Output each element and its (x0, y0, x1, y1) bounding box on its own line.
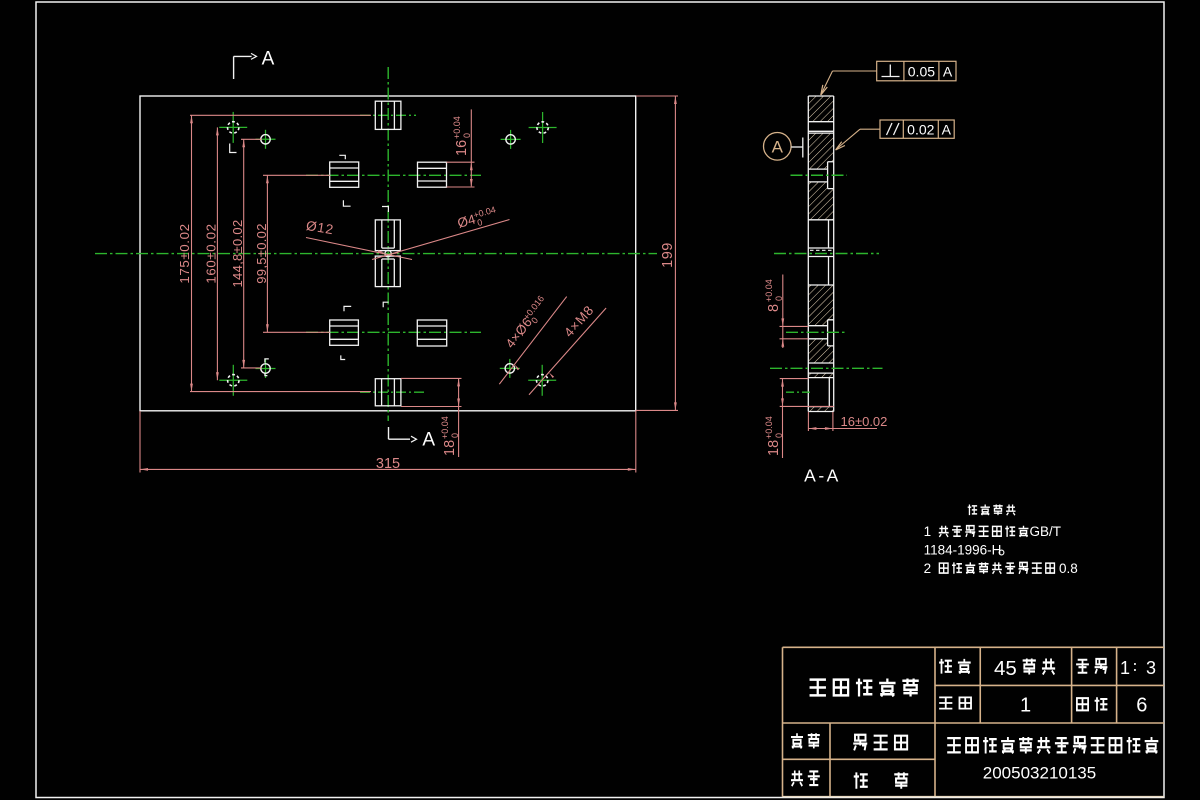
section cut mark A bottom (389, 427, 436, 451)
centerline horizontal main (95, 253, 657, 255)
svg-text:315: 315 (376, 456, 400, 472)
svg-text:1: 1 (1020, 695, 1031, 717)
hole phi6 top-left (256, 130, 276, 149)
feature control frame perpendicularity 0.05 A (821, 61, 956, 95)
dim 18+0.04 section (764, 379, 834, 458)
dim 16+0.04 slot width (447, 109, 475, 187)
cell 1:3 (1120, 658, 1156, 678)
hole M8 top-right (529, 112, 557, 143)
svg-text:175±0.02: 175±0.02 (177, 223, 192, 283)
svg-text:199: 199 (660, 242, 676, 268)
slot center lower (375, 256, 400, 287)
svg-text:0.02: 0.02 (907, 122, 934, 138)
pocket corner marks (230, 144, 389, 376)
svg-text:A: A (772, 138, 784, 157)
svg-text:+0.04: +0.04 (764, 279, 774, 302)
hole phi6 bottom-right (500, 359, 520, 378)
svg-text:45: 45 (994, 657, 1017, 680)
svg-text:0: 0 (476, 217, 484, 228)
school name (947, 737, 1158, 753)
leader phi12 (305, 218, 412, 260)
centerline vertical main (387, 67, 389, 421)
svg-text:0: 0 (774, 296, 784, 301)
svg-text:A: A (422, 430, 435, 451)
slot mid lower-left (330, 320, 359, 345)
cell 45号钢 (994, 657, 1055, 680)
dim 8+0.04 section (764, 275, 808, 349)
cell 材料 (939, 659, 971, 674)
centerline row2 (306, 331, 481, 333)
svg-text:+0.04: +0.04 (452, 116, 462, 139)
svg-text:GB/T: GB/T (1030, 524, 1062, 539)
section cut mark A top (234, 49, 275, 80)
qty value 1 (1020, 695, 1031, 717)
slot top (vertical) (375, 101, 401, 129)
dim 160±0.02 (204, 127, 219, 380)
svg-text:1: 1 (924, 524, 932, 539)
datum A circle (764, 133, 803, 161)
tech requirements text (924, 505, 1078, 576)
cell 制图 (791, 733, 820, 748)
name 罗惠镇 (853, 735, 907, 751)
svg-text:16±0.02: 16±0.02 (841, 414, 888, 429)
cell 比例 (1076, 659, 1107, 674)
svg-text:4×M8: 4×M8 (561, 302, 597, 340)
student id (983, 763, 1096, 782)
dim 18+0.04 bottom slot (401, 378, 462, 457)
svg-text:3: 3 (1146, 658, 1156, 678)
slot bottom (vertical) (375, 379, 401, 406)
centerline bottom slot (360, 391, 424, 393)
svg-text:160±0.02: 160±0.02 (204, 223, 219, 283)
svg-text:200503210135: 200503210135 (983, 763, 1096, 782)
cell 指导 (791, 770, 820, 786)
plate outline (315x199 top view) (140, 96, 636, 411)
title block grid (783, 647, 1165, 797)
svg-text:0: 0 (774, 433, 784, 438)
dim 16±0.02 section (808, 412, 887, 431)
hole M8 top-left (219, 112, 247, 143)
leader 4xM8 (529, 302, 606, 394)
slot mid lower-right (417, 320, 446, 346)
svg-text:∶: ∶ (1133, 659, 1137, 676)
hole phi4 center (385, 250, 391, 256)
section hidden line phi4 (810, 249, 832, 251)
svg-text:99,5±0.02: 99,5±0.02 (254, 223, 269, 283)
svg-text:18: 18 (766, 440, 782, 456)
section centerlines (770, 175, 883, 392)
hole phi6 bottom-left (256, 359, 276, 378)
cell 图号 (1077, 697, 1108, 711)
centerline top slot (360, 114, 416, 116)
label A-A (804, 466, 841, 486)
dim 315 (140, 411, 636, 473)
svg-text:16: 16 (454, 140, 470, 156)
svg-text:6: 6 (1136, 695, 1147, 717)
name 黎 传 (854, 772, 909, 788)
section hatched areas (808, 96, 833, 412)
svg-text:A: A (262, 49, 275, 70)
slot center upper (375, 220, 400, 251)
svg-text:A: A (943, 64, 953, 80)
svg-text:0: 0 (462, 133, 472, 138)
dim 175±0.02 (177, 115, 371, 391)
svg-text:A-A: A-A (804, 466, 841, 486)
svg-text:+0.04: +0.04 (440, 416, 450, 439)
svg-text:+0.04: +0.04 (764, 416, 774, 439)
svg-text:8: 8 (766, 304, 782, 312)
dim 99.5±0.02 (254, 175, 330, 332)
slot mid upper-left (330, 162, 359, 187)
svg-text:144,8±0.02: 144,8±0.02 (230, 220, 245, 288)
svg-text:1184-1996-H: 1184-1996-H (924, 542, 1002, 557)
sheet no 6 (1136, 695, 1147, 717)
section outline (808, 96, 833, 412)
svg-text:2: 2 (924, 561, 932, 576)
svg-text:A: A (942, 122, 952, 138)
hole phi6 top-right (501, 130, 521, 149)
svg-text:1: 1 (1120, 658, 1130, 678)
feature control frame parallelism 0.02 A (836, 120, 955, 150)
leader 4xphi6 (499, 294, 566, 384)
centerline row1 (306, 174, 481, 176)
svg-text:0.05: 0.05 (908, 64, 935, 80)
svg-text:Ø12: Ø12 (305, 218, 335, 237)
title 滑座固定板 (810, 679, 919, 697)
slot mid upper-right (418, 162, 447, 187)
svg-text:18: 18 (442, 440, 458, 456)
hole M8 bottom-right (528, 365, 556, 396)
svg-text:0: 0 (450, 433, 460, 438)
svg-text:0.8: 0.8 (1059, 561, 1078, 576)
leader phi4 (372, 204, 510, 259)
cell 数量 (939, 697, 971, 708)
hole M8 bottom-left (219, 365, 247, 396)
dim 199 (636, 96, 678, 410)
dim 144.8±0.02 (230, 139, 262, 368)
